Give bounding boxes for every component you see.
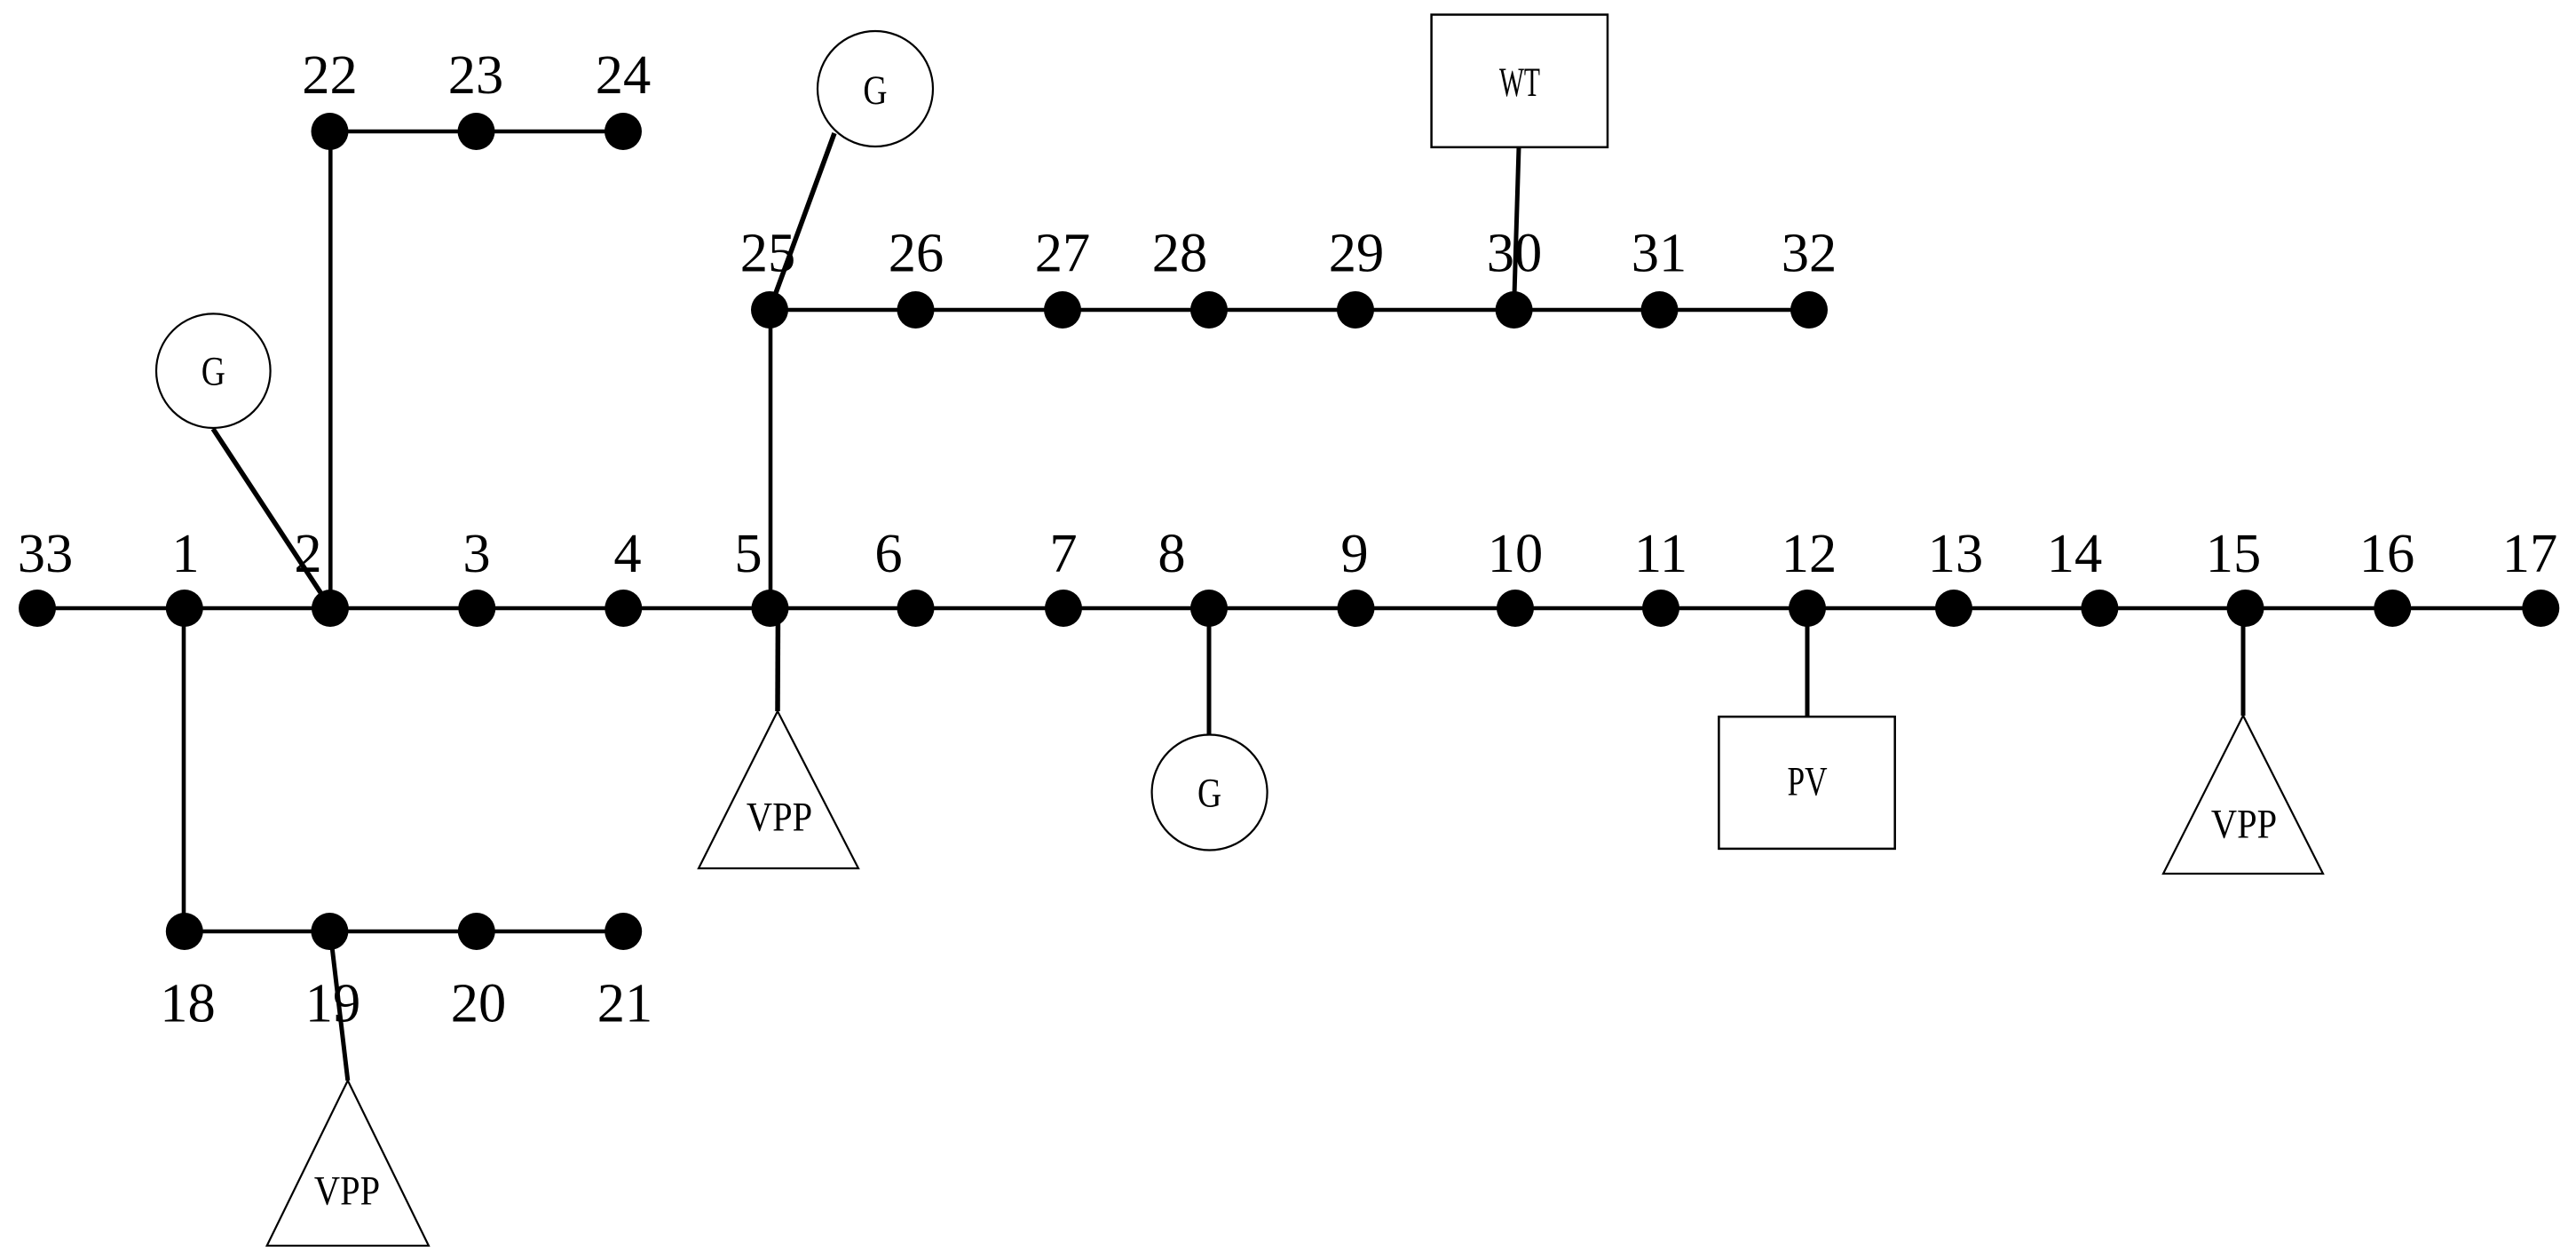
generator G3 circle at node 8 bbox=[1152, 735, 1268, 851]
node 11 bbox=[1642, 590, 1679, 627]
node 20 bbox=[458, 913, 495, 950]
svg-text:2: 2 bbox=[294, 522, 321, 584]
svg-text:5: 5 bbox=[734, 522, 762, 584]
svg-text:19: 19 bbox=[305, 972, 361, 1034]
svg-text:11: 11 bbox=[1634, 522, 1687, 584]
svg-text:32: 32 bbox=[1782, 222, 1837, 284]
svg-text:26: 26 bbox=[889, 222, 944, 284]
svg-text:23: 23 bbox=[448, 44, 504, 106]
svg-text:10: 10 bbox=[1488, 522, 1544, 584]
svg-text:22: 22 bbox=[302, 44, 358, 106]
node 30 bbox=[1496, 291, 1533, 329]
svg-text:27: 27 bbox=[1035, 222, 1091, 284]
node 32 bbox=[1790, 291, 1828, 329]
node 29 bbox=[1337, 291, 1374, 329]
node 7 bbox=[1045, 590, 1082, 627]
node 4 bbox=[604, 590, 642, 627]
wire 25 to G generator diagonal bbox=[770, 133, 834, 310]
svg-text:21: 21 bbox=[597, 972, 653, 1034]
svg-text:3: 3 bbox=[462, 522, 490, 584]
node 31 bbox=[1641, 291, 1679, 329]
svg-text:VPP: VPP bbox=[314, 1168, 380, 1214]
wire 15 to VPP bbox=[2241, 608, 2246, 716]
svg-text:24: 24 bbox=[596, 44, 652, 106]
svg-text:G: G bbox=[201, 349, 225, 395]
wire branch bus 25-32 bbox=[770, 308, 1809, 313]
wire 5-25 vertical bbox=[769, 310, 773, 608]
svg-text:31: 31 bbox=[1632, 222, 1687, 284]
svg-text:33: 33 bbox=[18, 522, 74, 584]
node 18 bbox=[166, 913, 203, 950]
VPP triangle at node 19 bbox=[267, 1081, 429, 1246]
svg-text:4: 4 bbox=[613, 522, 641, 584]
wire 5 to VPP bbox=[775, 608, 780, 711]
svg-text:9: 9 bbox=[1340, 522, 1368, 584]
node 22 bbox=[312, 113, 349, 150]
node 3 bbox=[458, 590, 495, 627]
node 1 bbox=[166, 590, 203, 627]
node 8 bbox=[1190, 590, 1228, 627]
svg-text:G: G bbox=[1197, 771, 1221, 817]
node 16 bbox=[2374, 590, 2411, 627]
PV photovoltaic box bbox=[1719, 717, 1894, 849]
svg-text:16: 16 bbox=[2359, 522, 2415, 584]
svg-text:8: 8 bbox=[1158, 522, 1185, 584]
wire branch bus 18-21 bbox=[185, 930, 623, 934]
svg-text:28: 28 bbox=[1152, 222, 1208, 284]
wire 2-22 vertical bbox=[328, 131, 333, 608]
generator G1 circle at node 2 bbox=[156, 313, 271, 428]
node 10 bbox=[1497, 590, 1534, 627]
generator G2 circle at node 25 bbox=[818, 31, 933, 146]
wire branch bus 22-24 bbox=[330, 130, 624, 134]
node 26 bbox=[897, 291, 935, 329]
svg-text:12: 12 bbox=[1782, 522, 1837, 584]
svg-text:14: 14 bbox=[2047, 522, 2103, 584]
wire 19 to VPP bbox=[330, 931, 348, 1081]
svg-text:30: 30 bbox=[1487, 222, 1543, 284]
VPP triangle at node 5 bbox=[699, 711, 858, 868]
svg-text:VPP: VPP bbox=[2211, 802, 2277, 847]
wire 12 to PV bbox=[1806, 608, 1810, 717]
svg-text:29: 29 bbox=[1329, 222, 1385, 284]
svg-text:VPP: VPP bbox=[747, 795, 812, 840]
svg-text:G: G bbox=[863, 67, 887, 114]
WT wind turbine box bbox=[1432, 15, 1608, 147]
svg-text:7: 7 bbox=[1049, 522, 1077, 584]
svg-text:18: 18 bbox=[160, 972, 216, 1034]
svg-text:20: 20 bbox=[451, 972, 507, 1034]
svg-text:17: 17 bbox=[2502, 522, 2558, 584]
node 15 bbox=[2227, 590, 2264, 627]
node 33 bbox=[19, 590, 56, 627]
wire 30 to WT bbox=[1514, 147, 1519, 307]
node 19 bbox=[311, 913, 348, 950]
node 6 bbox=[897, 590, 935, 627]
node 12 bbox=[1789, 590, 1826, 627]
node 17 bbox=[2522, 590, 2559, 627]
VPP triangle at node 15 bbox=[2163, 716, 2323, 874]
svg-text:15: 15 bbox=[2206, 522, 2262, 584]
wire 1-18 vertical bbox=[182, 608, 186, 931]
node 5 bbox=[752, 590, 789, 627]
node 14 bbox=[2081, 590, 2118, 627]
node 13 bbox=[1935, 590, 1972, 627]
svg-text:25: 25 bbox=[740, 222, 796, 284]
node 27 bbox=[1044, 291, 1081, 329]
svg-text:WT: WT bbox=[1499, 59, 1540, 105]
svg-text:1: 1 bbox=[171, 522, 199, 584]
node 24 bbox=[604, 113, 642, 150]
svg-text:PV: PV bbox=[1787, 758, 1827, 804]
node 23 bbox=[458, 113, 495, 150]
wire 8 to G generator bbox=[1207, 608, 1212, 736]
node 21 bbox=[604, 913, 642, 950]
svg-text:6: 6 bbox=[874, 522, 902, 584]
svg-text:13: 13 bbox=[1928, 522, 1984, 584]
wire main bus 33-17 bbox=[37, 606, 2540, 611]
wire 2 to G generator diagonal bbox=[213, 429, 330, 607]
node 28 bbox=[1190, 291, 1228, 329]
node 25 bbox=[751, 291, 788, 329]
node 2 bbox=[312, 590, 349, 627]
node 9 bbox=[1338, 590, 1375, 627]
